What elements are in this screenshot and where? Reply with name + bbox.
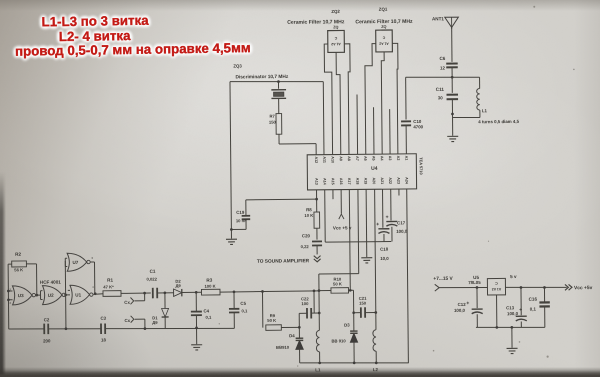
coil L2 (bottom) bbox=[374, 311, 377, 314]
node - crystal top bbox=[277, 80, 280, 83]
node - main line to C22 bbox=[313, 290, 316, 293]
svg-text:C16: C16 bbox=[529, 297, 538, 302]
capacitor C11 bbox=[451, 78, 453, 93]
svg-text:56 K: 56 K bbox=[14, 267, 23, 272]
svg-text:Cx: Cx bbox=[124, 318, 130, 323]
svg-text:Vcc +5v: Vcc +5v bbox=[574, 285, 593, 291]
node - U2 out / U1 in / U7 in / C2 tap bbox=[64, 293, 67, 296]
capacitor C3 bbox=[100, 324, 102, 334]
wire - U3 inputs bbox=[8, 290, 12, 292]
svg-text:12: 12 bbox=[440, 65, 445, 70]
ground - discriminator bbox=[230, 229, 232, 238]
wire - frame right down to pin A11 bbox=[322, 82, 325, 155]
svg-text:150: 150 bbox=[269, 120, 277, 125]
wire - discriminator frame top bbox=[230, 81, 323, 83]
capacitor C4 bbox=[195, 291, 198, 294]
wire - pin A15 stub bbox=[332, 190, 334, 199]
wire - tank top horizontal bbox=[406, 77, 480, 78]
svg-text:Д9: Д9 bbox=[152, 320, 158, 325]
connector - power input bbox=[435, 284, 439, 291]
wire - down to C10 bbox=[405, 77, 407, 119]
svg-text:D3: D3 bbox=[344, 323, 350, 328]
svg-text:L1: L1 bbox=[482, 108, 488, 113]
svg-text:0,1: 0,1 bbox=[241, 308, 248, 313]
capacitor C20 bbox=[312, 240, 322, 242]
svg-text:ZQ3: ZQ3 bbox=[233, 63, 242, 68]
svg-text:A7: A7 bbox=[355, 156, 359, 161]
svg-text:A13: A13 bbox=[314, 178, 318, 185]
wire - down to R9 bbox=[261, 291, 263, 327]
svg-text:+7...15 V: +7...15 V bbox=[433, 276, 453, 282]
wire - ZQ2 center pin to A9 bbox=[336, 52, 341, 154]
node - Cx tap bbox=[143, 292, 146, 295]
node - C1/D1/D2 bbox=[164, 291, 167, 294]
gate U3 (HCF 4001 NOR) bbox=[12, 286, 32, 305]
svg-text:C: C bbox=[495, 281, 498, 285]
svg-text:A5: A5 bbox=[371, 156, 375, 161]
wire - tank to ground bbox=[452, 118, 454, 136]
wire - pin A13 down bbox=[316, 190, 318, 212]
wire - to PSU ground bbox=[511, 327, 513, 347]
wire - U2 input tie bbox=[39, 291, 41, 300]
svg-text:A24: A24 bbox=[405, 177, 409, 185]
crystal ZQ3 discriminator bbox=[277, 82, 279, 89]
wire - R7 to pin A12 bbox=[278, 134, 280, 144]
svg-text:0,1: 0,1 bbox=[530, 307, 537, 312]
svg-text:100 K: 100 K bbox=[204, 284, 215, 289]
svg-text:A22: A22 bbox=[388, 177, 392, 184]
svg-text:C2: C2 bbox=[44, 317, 50, 322]
svg-text:Vcc +5 v: Vcc +5 v bbox=[333, 225, 352, 230]
svg-text:A2: A2 bbox=[396, 156, 400, 161]
svg-text:50 K: 50 K bbox=[333, 281, 342, 286]
wire - R2 right to U3 output bbox=[26, 263, 36, 265]
node - C19 tee bbox=[315, 198, 318, 201]
svg-text:+: + bbox=[519, 307, 522, 313]
wire - R10 right down to C21/D3 bbox=[352, 290, 354, 330]
svg-text:A4: A4 bbox=[380, 156, 384, 162]
coil L1 (antenna tank) bbox=[479, 77, 481, 88]
svg-text:R3: R3 bbox=[206, 278, 212, 283]
varicap D4 BB910 bbox=[296, 340, 304, 349]
svg-text:U2: U2 bbox=[48, 293, 54, 298]
svg-text:TEA 5710: TEA 5710 bbox=[419, 157, 424, 174]
ground - PSU bbox=[507, 347, 518, 349]
svg-text:C4: C4 bbox=[203, 308, 209, 313]
svg-text:R8: R8 bbox=[306, 207, 312, 212]
wire - R1 to C1 bbox=[121, 292, 151, 294]
svg-text:50 K: 50 K bbox=[267, 318, 276, 323]
resistor R2 bbox=[12, 261, 27, 267]
resistor R8 bbox=[314, 212, 320, 228]
wire - pin A19 to ground bbox=[365, 189, 368, 257]
capacitor C6 bbox=[446, 62, 457, 64]
svg-text:A11: A11 bbox=[322, 156, 326, 163]
svg-text:U1: U1 bbox=[75, 293, 81, 298]
node - tank top bbox=[451, 76, 454, 79]
svg-text:HCF 4001: HCF 4001 bbox=[40, 280, 61, 285]
svg-text:A3: A3 bbox=[388, 156, 392, 161]
svg-text:Д9: Д9 bbox=[175, 283, 181, 288]
svg-text:A19: A19 bbox=[364, 178, 368, 185]
wire - cap bottom rail bbox=[325, 241, 391, 244]
svg-text:A15: A15 bbox=[331, 178, 335, 185]
capacitor C18 bbox=[382, 189, 384, 228]
svg-text:4 turns 0,5 diam 4,5: 4 turns 0,5 diam 4,5 bbox=[478, 119, 519, 124]
wire - R8 to C20 bbox=[316, 228, 318, 239]
resistor R1 bbox=[103, 291, 121, 297]
svg-text:A1: A1 bbox=[404, 156, 408, 161]
svg-text:A10: A10 bbox=[330, 156, 334, 163]
svg-text:R7: R7 bbox=[269, 114, 275, 119]
svg-text:U4: U4 bbox=[371, 166, 378, 172]
varicap D3 BB910 bbox=[350, 333, 357, 342]
svg-text:U3: U3 bbox=[18, 293, 24, 298]
wire - R2 left to input rail bbox=[8, 263, 12, 265]
wire - U5 ground pin bbox=[496, 295, 498, 327]
wire - ZQ2 left pin to A10 bbox=[324, 44, 332, 155]
wire - pin A7 stub bbox=[356, 94, 359, 154]
svg-text:10 K: 10 K bbox=[304, 213, 313, 218]
svg-text:10,0: 10,0 bbox=[380, 256, 389, 261]
op-amp U4 TEA5710 IC body bbox=[307, 154, 416, 190]
svg-text:10 nF: 10 nF bbox=[236, 218, 247, 223]
svg-text:47 K*: 47 K* bbox=[103, 284, 114, 289]
svg-text:C12: C12 bbox=[458, 302, 467, 307]
svg-text:30: 30 bbox=[438, 95, 443, 100]
svg-text:C3: C3 bbox=[100, 316, 106, 321]
diode D1 (vertical) bbox=[164, 293, 166, 309]
svg-text:U7: U7 bbox=[72, 260, 78, 265]
svg-text:5 v: 5 v bbox=[510, 274, 517, 279]
svg-text:2: 2 bbox=[9, 301, 11, 305]
coil L1 (bottom) bbox=[318, 313, 320, 330]
ground - pin A19 bbox=[361, 257, 372, 259]
svg-text:BB910: BB910 bbox=[276, 345, 290, 350]
svg-text:R1: R1 bbox=[107, 278, 113, 283]
wire - U5 output bbox=[505, 287, 566, 288]
svg-text:0,022: 0,022 bbox=[146, 277, 157, 282]
wire - oscillator bottom rail bbox=[9, 328, 44, 331]
connector - Vcc out bbox=[565, 284, 568, 290]
svg-text:C19: C19 bbox=[236, 210, 245, 215]
svg-text:3: 3 bbox=[91, 256, 93, 260]
svg-text:100,0: 100,0 bbox=[507, 311, 519, 316]
svg-text:200: 200 bbox=[43, 338, 51, 343]
svg-text:A20: A20 bbox=[372, 177, 376, 184]
svg-text:A17: A17 bbox=[347, 178, 351, 185]
capacitor C22 bbox=[299, 312, 307, 314]
capacitor C12 bbox=[476, 286, 479, 289]
svg-text:A8: A8 bbox=[347, 156, 351, 161]
svg-text:D4: D4 bbox=[289, 333, 295, 338]
svg-text:+: + bbox=[386, 214, 389, 220]
resistor R7 bbox=[276, 114, 282, 135]
svg-text:C11: C11 bbox=[436, 87, 445, 92]
wire - antenna down to C6 bbox=[451, 27, 453, 61]
svg-text:A21: A21 bbox=[380, 177, 384, 184]
gate U7 (HCF 4001 NOR) bbox=[67, 253, 87, 271]
ground - antenna tank bbox=[447, 135, 458, 137]
wire - input to U5 bbox=[439, 286, 487, 289]
capacitor C1 bbox=[152, 288, 154, 298]
svg-text:A16: A16 bbox=[339, 178, 343, 185]
svg-text:C5: C5 bbox=[240, 301, 246, 306]
wire - pin A14 down to cap rail bbox=[324, 190, 327, 242]
resistor R10 bbox=[319, 290, 331, 292]
node - oscillator output bbox=[94, 292, 97, 295]
wire - ZQ1 center pin to A4 bbox=[381, 52, 385, 154]
svg-text:18: 18 bbox=[101, 337, 106, 342]
svg-text:C1: C1 bbox=[150, 269, 156, 274]
dust specks bbox=[547, 356, 549, 358]
wire - pin A16 Vcc bbox=[340, 190, 342, 214]
svg-text:C6: C6 bbox=[439, 56, 445, 61]
ceramic filter ZQ2 bbox=[328, 30, 345, 52]
svg-text:TO SOUND AMPLIFIER: TO SOUND AMPLIFIER bbox=[257, 258, 310, 265]
capacitor C19 bbox=[245, 200, 247, 215]
wire - ZQ2 right pin to A8 bbox=[344, 44, 351, 155]
voltage regulator U5 78L05 bbox=[487, 278, 505, 295]
svg-text:4: 4 bbox=[92, 285, 94, 289]
svg-text:C17: C17 bbox=[397, 220, 406, 225]
resistor R3 bbox=[201, 289, 220, 295]
capacitor C13 bbox=[520, 286, 523, 289]
wire - pin A17 down to R10 right bbox=[348, 190, 351, 291]
svg-text:4700: 4700 bbox=[413, 124, 423, 129]
wire - C19 horizontal bbox=[246, 198, 317, 201]
svg-text:+: + bbox=[466, 301, 469, 307]
gate U1 (HCF 4001 NOR) bbox=[70, 285, 90, 304]
wire - tank node left (pin A18) bbox=[357, 190, 360, 274]
capacitor C17 bbox=[390, 189, 392, 220]
node - U3 out / U2 in bbox=[35, 294, 38, 297]
svg-text:A23: A23 bbox=[396, 177, 400, 184]
wire - ZQ1 left pin to A6 bbox=[365, 44, 377, 155]
svg-text:A18: A18 bbox=[355, 178, 359, 185]
capacitor C5 bbox=[233, 290, 236, 293]
wire - U7 output down to node bbox=[90, 261, 94, 263]
capacitor C16 bbox=[543, 286, 546, 289]
capacitor C21 bbox=[354, 312, 361, 314]
wire - pin A24 down to rail bbox=[407, 189, 409, 363]
svg-text:Cx: Cx bbox=[124, 300, 130, 305]
wire - pin A3 stub bbox=[389, 109, 391, 154]
node - R9 branch bbox=[261, 290, 264, 293]
svg-text:150: 150 bbox=[359, 301, 367, 306]
svg-text:C13: C13 bbox=[506, 305, 515, 310]
ceramic filter ZQ1 bbox=[376, 30, 393, 52]
svg-text:100,0: 100,0 bbox=[454, 308, 466, 313]
svg-text:C20: C20 bbox=[302, 233, 311, 238]
wire - pin A23 stub bbox=[398, 189, 400, 195]
svg-text:A1 A2: A1 A2 bbox=[492, 287, 502, 291]
wire - pin A5 stub bbox=[373, 107, 375, 154]
svg-text:+: + bbox=[376, 222, 379, 228]
node - tank bottom bbox=[451, 113, 454, 116]
svg-text:A14: A14 bbox=[323, 178, 327, 186]
svg-text:78L05: 78L05 bbox=[468, 280, 481, 285]
capacitor C10 bbox=[401, 120, 411, 122]
svg-text:A12: A12 bbox=[314, 156, 318, 163]
svg-text:100,0: 100,0 bbox=[396, 229, 408, 234]
svg-text:100: 100 bbox=[301, 301, 309, 306]
wire - frame left down to C19 node bbox=[230, 82, 231, 230]
svg-text:Discriminator 10,7 MHz: Discriminator 10,7 MHz bbox=[235, 74, 288, 81]
svg-text:C10: C10 bbox=[413, 119, 422, 124]
svg-text:BB 910: BB 910 bbox=[331, 338, 346, 343]
svg-text:R2: R2 bbox=[15, 252, 21, 257]
wire - PSU bottom rail bbox=[476, 327, 545, 328]
svg-text:A9: A9 bbox=[339, 156, 343, 161]
arrow - to sound amplifier bbox=[314, 256, 321, 259]
resistor R9 bbox=[266, 325, 282, 331]
wire - bottom ground rail bbox=[300, 362, 409, 364]
wire - ZQ1 right pin to A2 bbox=[392, 43, 398, 154]
node - R9/D4/C22 bbox=[298, 313, 300, 337]
svg-text:0,22: 0,22 bbox=[301, 244, 310, 249]
svg-text:0,1: 0,1 bbox=[206, 315, 213, 320]
svg-text:A6: A6 bbox=[363, 156, 367, 161]
svg-text:C18: C18 bbox=[380, 247, 389, 252]
capacitor C2 bbox=[43, 324, 45, 334]
ground - under C4 bbox=[191, 344, 202, 346]
